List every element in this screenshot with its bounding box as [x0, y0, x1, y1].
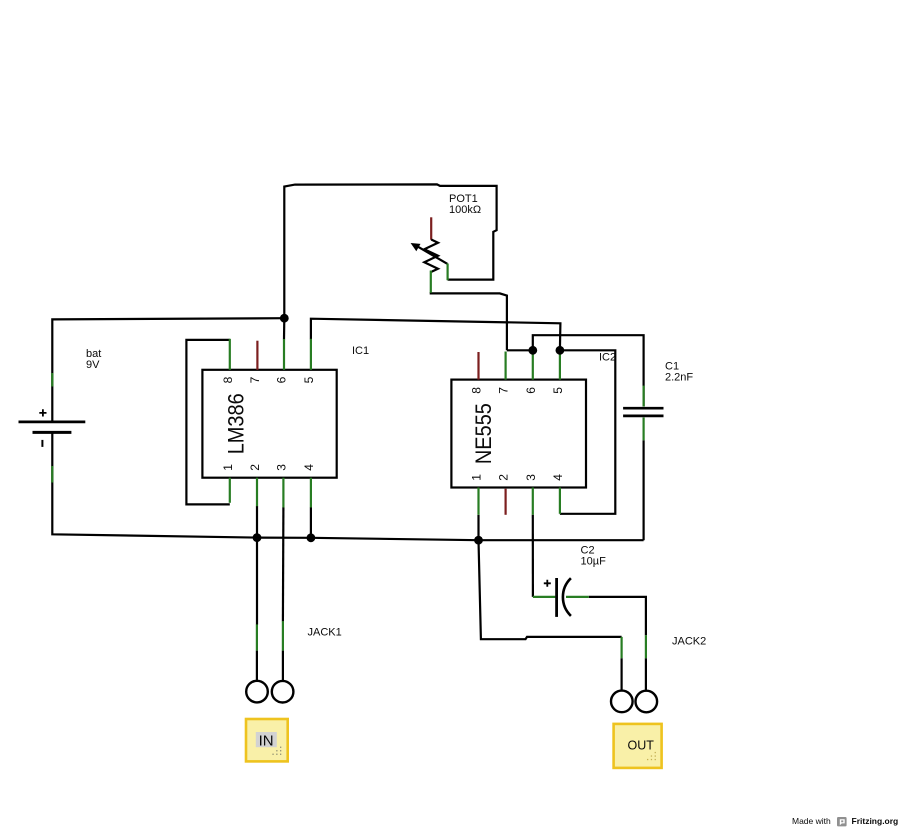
svg-text:IN: IN	[259, 733, 274, 750]
svg-text:10µF: 10µF	[581, 556, 607, 568]
OUT box resize grip	[647, 752, 656, 760]
svg-text:NE555: NE555	[471, 403, 496, 464]
JACK2 sleeve terminal circle	[611, 691, 633, 713]
IC2 pin 8 unconnected red	[477, 352, 479, 380]
svg-text:LM386: LM386	[224, 393, 249, 454]
svg-text:JACK2: JACK2	[672, 636, 706, 648]
IC1 pin 8 green	[229, 339, 231, 370]
battery bat 9V	[19, 348, 102, 483]
svg-text:6: 6	[275, 376, 289, 383]
C2 plus sign	[544, 580, 551, 587]
wire node C right and down to NE555 pin 4	[560, 350, 615, 514]
svg-text:8: 8	[221, 376, 235, 383]
jack JACK2	[611, 635, 706, 712]
wire loop from node A up over to POT wiper	[284, 184, 496, 318]
svg-text:4: 4	[302, 464, 316, 471]
POT1 wiper arrowhead	[411, 243, 421, 251]
capacitor C2 10uF polarized	[533, 545, 606, 617]
svg-text:Made with: Made with	[792, 816, 831, 826]
note box IN	[246, 719, 288, 761]
wire C2 right lead to JACK2 tip	[589, 597, 646, 635]
IN box resize grip	[272, 747, 281, 755]
wire NE555 pin1 down to ground bus node D	[477, 515, 479, 540]
IC1 pin 3 green	[282, 478, 284, 508]
wire JACK2 sleeve pin lower black segment	[620, 658, 622, 691]
node C junction LM386 pin5 NE555 pin5 pin4	[556, 346, 565, 355]
battery minus sign	[41, 440, 43, 447]
svg-text:4: 4	[551, 474, 565, 481]
JACK1 tip terminal circle	[272, 681, 294, 703]
svg-text:9V: 9V	[86, 359, 100, 371]
IC1 body	[202, 370, 336, 478]
svg-text:2: 2	[248, 464, 262, 471]
svg-text:2.2nF: 2.2nF	[665, 372, 693, 384]
jack JACK1	[246, 621, 342, 702]
JACK1 sleeve pin green	[256, 624, 258, 650]
IC1 pin 6 green	[283, 339, 285, 370]
JACK1 tip pin green	[282, 621, 284, 650]
wire JACK2 tip pin lower black segment	[645, 658, 647, 691]
IC1 pin 2 green	[256, 478, 258, 507]
C1 top plate	[623, 407, 663, 410]
timer IC2 NE555	[451, 350, 616, 515]
C1 bottom lead green	[642, 418, 644, 441]
svg-text:IC2: IC2	[599, 352, 616, 364]
wire JACK1 sleeve pin lower black segment	[256, 651, 258, 681]
wire top bus from battery + to node A	[52, 318, 284, 421]
svg-text:8: 8	[470, 387, 484, 394]
wire node D down to JACK2 ground run	[479, 540, 622, 639]
POT1 resistor zigzag	[424, 240, 438, 272]
potentiometer POT1 100k	[411, 193, 481, 293]
C2 left lead green	[533, 596, 556, 598]
IC1 pin 5 green	[310, 339, 312, 370]
IC2 pin 4 green	[559, 488, 561, 514]
IC2 pin 7 green	[505, 352, 507, 380]
node A junction battery plus LM386 pin6 POT loop	[280, 314, 289, 323]
node ground junction LM386 pin4	[307, 533, 316, 542]
wire battery negative down and bottom ground bus	[52, 433, 643, 540]
wire node B up and right to C1 top	[533, 335, 644, 406]
node ground junction LM386 pin2	[253, 533, 262, 542]
IC2 pin 5 green	[559, 350, 561, 379]
svg-text:6: 6	[524, 387, 538, 394]
JACK1 sleeve terminal circle	[246, 681, 268, 703]
IC2 pin 2 unconnected red	[505, 489, 507, 515]
svg-text:1: 1	[470, 474, 484, 481]
svg-text:5: 5	[551, 387, 565, 394]
IC2 pin 6 green	[532, 350, 534, 379]
wire NE555 pin3 down to C2 plus lead	[532, 515, 534, 597]
svg-text:100kΩ: 100kΩ	[449, 204, 481, 216]
svg-text:Fritzing.org: Fritzing.org	[852, 816, 899, 826]
POT1 wiper arrow shaft	[416, 246, 447, 264]
C2 straight plus plate	[555, 578, 558, 617]
C1 bottom plate	[623, 415, 663, 418]
IC1 pin 7 unconnected red	[256, 341, 258, 370]
wire LM386 pin5 to node C	[311, 319, 561, 351]
svg-text:5: 5	[302, 376, 316, 383]
wire NE555 pin7 to node B	[507, 349, 533, 351]
svg-text:7: 7	[497, 387, 511, 394]
IC2 body	[451, 380, 586, 488]
svg-text:2: 2	[497, 474, 511, 481]
op-amp IC1 LM386	[202, 339, 369, 508]
svg-text:OUT: OUT	[628, 739, 655, 753]
wire LM386 pin2 down to JACK1 sleeve	[256, 506, 258, 625]
IC2 pin 3 green	[532, 488, 534, 515]
wire LM386 pin3 down to JACK1 tip	[282, 507, 285, 621]
node B junction NE555 pin6 pin7 C1	[528, 346, 537, 355]
battery plus sign	[39, 409, 46, 416]
battery positive plate	[19, 421, 86, 424]
battery pin green top	[51, 373, 53, 387]
svg-text:3: 3	[275, 464, 289, 471]
svg-text:IC1: IC1	[352, 345, 369, 357]
wire LM386 pin4 down to ground bus	[310, 507, 312, 538]
battery pin green bottom	[51, 466, 53, 483]
svg-text:1: 1	[221, 464, 235, 471]
POT1 wiper pin green	[447, 264, 449, 281]
capacitor C1 2.2nF	[623, 361, 693, 441]
svg-text:JACK1: JACK1	[308, 627, 342, 639]
IC2 pin 1 green	[477, 488, 479, 515]
POT1 top pin unconnected red	[430, 217, 432, 240]
note box OUT	[614, 724, 662, 768]
wire POT bottom terminal to NE555 pin 7	[431, 292, 507, 350]
credit made with fritzing	[792, 816, 898, 826]
C2 curved minus plate	[563, 578, 571, 616]
svg-text:7: 7	[248, 376, 262, 383]
battery negative plate	[33, 431, 72, 434]
IC1 pin 4 green	[310, 478, 312, 508]
svg-text:3: 3	[524, 474, 538, 481]
C1 top lead green	[642, 386, 644, 407]
IC1 pin 1 green	[229, 478, 231, 503]
JACK2 tip terminal circle	[636, 691, 658, 713]
JACK2 tip pin green	[645, 635, 647, 658]
wire node A down to LM386 pin6	[283, 318, 285, 339]
JACK2 sleeve pin green	[620, 637, 622, 658]
C2 right lead green	[566, 596, 589, 598]
wire C1 bottom lead to ground bus	[642, 440, 644, 540]
wire LM386 pin8 to pin1 left loop	[186, 340, 229, 505]
node D ground junction NE555 pin1 JACK2	[474, 536, 483, 545]
POT1 bottom pin green	[430, 271, 432, 293]
wire JACK1 tip pin lower black segment	[282, 651, 284, 681]
